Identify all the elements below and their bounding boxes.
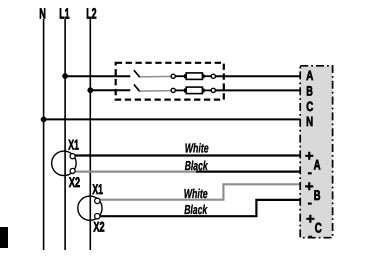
wire F2 to terminal B <box>215 89 300 91</box>
wire CT2 X1 white lead to terminal +B (gray) <box>99 184 300 199</box>
wire L1 to switch SW1 <box>65 75 130 77</box>
wire CT2 X2 black lead to terminal -B <box>99 200 300 216</box>
wire L1 vertical <box>64 19 66 250</box>
CT1 terminal X2 circle <box>70 168 75 173</box>
fuse F2 output contact circle <box>211 88 215 92</box>
wire SW1 to fuse F1 <box>175 75 184 77</box>
wire N vertical <box>43 19 45 250</box>
svg-text:Black: Black <box>184 202 208 217</box>
svg-text:C: C <box>306 99 313 114</box>
junction dot on L2 <box>87 87 93 93</box>
junction dot on L1 <box>62 73 68 79</box>
terminal +B plus sign <box>305 182 313 190</box>
switch SW2 gray arm <box>140 90 171 93</box>
switch SW2 blade <box>134 84 140 91</box>
svg-text:B: B <box>306 84 313 99</box>
junction dot on N <box>41 117 47 123</box>
switch SW1 gray arm <box>140 75 171 78</box>
CT2 terminal X2 circle <box>95 214 100 219</box>
wire CT1 X1 white lead to terminal +A <box>74 154 300 156</box>
fuse F1 output contact circle <box>211 74 215 78</box>
wire N to terminal N <box>44 118 300 120</box>
svg-text:White: White <box>184 186 208 201</box>
CT2 current transformer circle <box>78 196 102 220</box>
svg-text:B: B <box>314 187 321 203</box>
wire CT1 X2 black lead to terminal -A <box>196 171 300 173</box>
svg-text:L2: L2 <box>86 6 96 22</box>
svg-text:A: A <box>314 157 321 173</box>
wire L2 to switch SW2 <box>90 89 130 91</box>
svg-text:X1: X1 <box>68 137 79 153</box>
svg-text:Black: Black <box>185 158 209 173</box>
svg-text:C: C <box>315 220 322 236</box>
fuse F1 <box>184 73 205 80</box>
svg-text:N: N <box>306 114 313 129</box>
dashed enclosure (disconnect/fuse box) <box>116 63 224 100</box>
wire CT1 X2 black lead gray segment <box>74 171 196 173</box>
terminal +C plus sign <box>306 215 314 223</box>
CT2 terminal X1 circle <box>95 198 100 203</box>
wire SW2 to fuse F2 <box>175 89 184 91</box>
fuse F2 <box>184 87 205 94</box>
svg-text:X1: X1 <box>92 181 103 197</box>
printing registration mark bottom-left <box>0 227 8 248</box>
svg-text:N: N <box>39 6 46 22</box>
terminal +A plus sign <box>305 152 313 160</box>
svg-text:X2: X2 <box>93 219 104 235</box>
terminal -A minus sign <box>308 172 312 174</box>
terminal block (meter) <box>300 66 332 238</box>
svg-text:X2: X2 <box>69 174 80 190</box>
terminal -C minus sign <box>308 236 312 238</box>
wire fuse F1 to contact <box>205 75 212 77</box>
svg-text:A: A <box>306 68 313 83</box>
CT1 current transformer circle <box>52 151 77 176</box>
wire fuse F2 to contact <box>205 89 212 91</box>
terminal -B minus sign <box>308 203 312 205</box>
switch SW1 contact circle <box>171 74 175 78</box>
svg-text:White: White <box>185 141 209 156</box>
CT1 terminal X1 circle <box>70 154 75 159</box>
wire F1 to terminal A <box>215 75 300 77</box>
switch SW2 contact circle <box>171 88 175 92</box>
wire L2 vertical <box>89 19 91 250</box>
switch SW1 blade <box>134 70 140 77</box>
